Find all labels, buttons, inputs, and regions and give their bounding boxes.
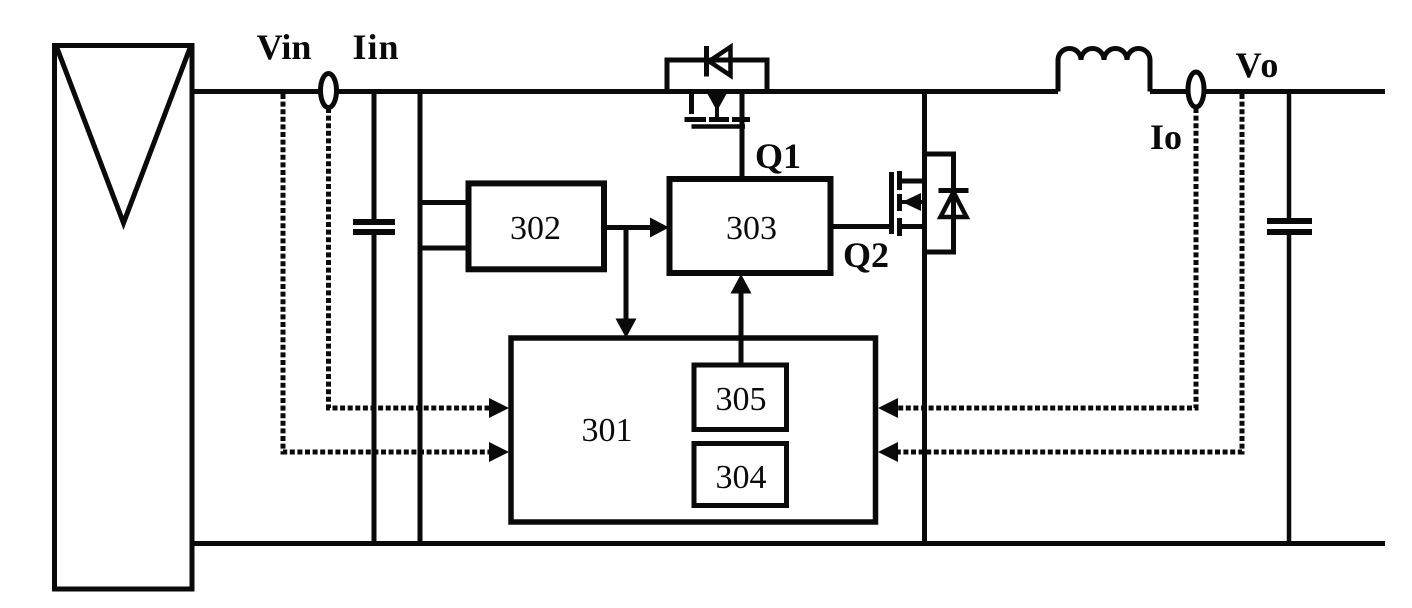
svg-text:Io: Io (1150, 117, 1182, 157)
svg-text:303: 303 (726, 210, 777, 247)
svg-text:Q2: Q2 (843, 235, 889, 275)
svg-text:305: 305 (716, 381, 767, 418)
svg-text:Iin: Iin (352, 27, 399, 67)
svg-text:Vin: Vin (257, 27, 312, 67)
svg-text:Vo: Vo (1236, 45, 1281, 85)
svg-text:301: 301 (582, 412, 633, 449)
svg-text:Q1: Q1 (755, 136, 801, 176)
svg-text:304: 304 (716, 459, 767, 496)
svg-text:302: 302 (510, 210, 561, 247)
